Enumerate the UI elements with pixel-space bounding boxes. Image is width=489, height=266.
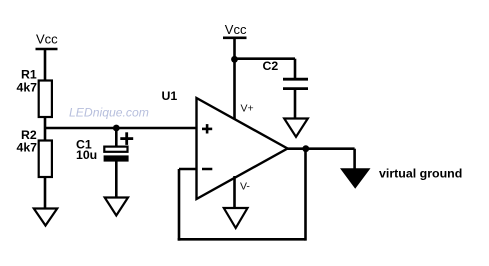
svg-text:4k7: 4k7 bbox=[17, 81, 38, 95]
svg-text:LEDnique.com: LEDnique.com bbox=[69, 106, 149, 120]
power symbol Vcc (top) bbox=[223, 22, 247, 60]
resistor R1 bbox=[17, 68, 52, 118]
ground (below C2) bbox=[284, 119, 308, 137]
wire feedback left vertical bbox=[178, 169, 181, 241]
wire output bbox=[288, 147, 355, 150]
capacitor C1 (polarized) bbox=[76, 132, 133, 162]
wire node to C1 bbox=[115, 128, 118, 147]
svg-text:V-: V- bbox=[240, 181, 250, 193]
output junction dot bbox=[302, 145, 309, 152]
op-amp U1 bbox=[162, 89, 288, 199]
svg-text:R1: R1 bbox=[21, 68, 37, 82]
wire C2 to ground bbox=[294, 90, 297, 119]
svg-text:U1: U1 bbox=[162, 89, 178, 103]
wire feedback bottom bbox=[178, 238, 306, 241]
pin wire V+ (Vcc node into op-amp top) bbox=[233, 59, 236, 119]
wire feedback: minus input bbox=[179, 168, 197, 171]
virtual ground symbol (filled) bbox=[342, 169, 370, 188]
power symbol Vcc (left) bbox=[36, 32, 59, 82]
node junction dot bbox=[113, 125, 120, 132]
wire R2 to ground bbox=[44, 177, 47, 209]
svg-text:4k7: 4k7 bbox=[17, 141, 38, 155]
ground (below C1) bbox=[105, 198, 128, 216]
wire Vcc node to C2 bbox=[235, 57, 296, 60]
svg-text:Vcc: Vcc bbox=[36, 32, 58, 47]
svg-text:C2: C2 bbox=[263, 59, 279, 73]
resistor R2 bbox=[17, 128, 52, 177]
svg-text:10u: 10u bbox=[76, 148, 97, 162]
wire node to op-amp + input bbox=[44, 127, 197, 130]
svg-text:virtual ground: virtual ground bbox=[379, 167, 462, 181]
wire C1 to ground bbox=[115, 162, 118, 198]
capacitor C2 bbox=[263, 59, 309, 88]
pin wire V- (op-amp bottom to ground) bbox=[233, 176, 236, 208]
svg-text:Vcc: Vcc bbox=[225, 22, 247, 37]
wire feedback right vertical bbox=[304, 149, 307, 241]
ground (below V- pin) bbox=[224, 208, 248, 228]
junction dot at Vcc node bbox=[231, 56, 238, 63]
svg-text:V+: V+ bbox=[241, 103, 254, 115]
ground (below R2) bbox=[34, 209, 57, 226]
wire R1 to R2 bbox=[44, 117, 47, 141]
wire to virtual ground symbol bbox=[353, 149, 356, 170]
